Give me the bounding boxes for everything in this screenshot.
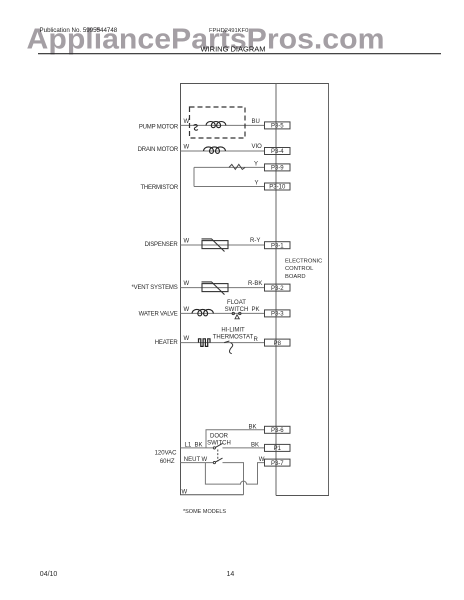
- wire thermistor bottom branch: [194, 186, 265, 188]
- electronic control board label: [285, 258, 322, 280]
- svg-text:WATER VALVE: WATER VALVE: [139, 311, 178, 317]
- wire water valve W: [181, 312, 265, 314]
- wire thermistor top branch: [194, 166, 265, 168]
- svg-text:P8: P8: [274, 341, 282, 347]
- svg-text:120VAC: 120VAC: [155, 451, 178, 457]
- svg-text:W: W: [184, 119, 190, 125]
- svg-text:ELECTRONIC: ELECTRONIC: [285, 258, 322, 264]
- svg-text:P3-9: P3-9: [271, 166, 284, 172]
- svg-text:14: 14: [227, 571, 235, 578]
- door switch pole 1: [213, 443, 222, 449]
- svg-text:Publication No. 5995544748: Publication No. 5995544748: [40, 27, 118, 34]
- svg-text:R: R: [254, 337, 259, 343]
- wire dispenser W: [181, 244, 265, 246]
- neutral bus bottom wire W: [180, 494, 244, 496]
- heater element: [199, 339, 211, 347]
- svg-text:W: W: [184, 239, 190, 245]
- drain motor winding coil: [204, 147, 226, 153]
- svg-text:W: W: [184, 281, 190, 287]
- svg-text:WIRING DIAGRAM: WIRING DIAGRAM: [201, 44, 266, 53]
- svg-text:DRAIN MOTOR: DRAIN MOTOR: [138, 147, 179, 153]
- svg-text:W: W: [184, 336, 190, 342]
- connector P3-1: [265, 242, 291, 250]
- svg-text:DOOR: DOOR: [210, 433, 229, 439]
- pump motor dashed enclosure: [190, 107, 246, 138]
- wire BK to P1: [223, 447, 265, 449]
- svg-text:FLOAT: FLOAT: [227, 300, 246, 306]
- wire drain motor W: [181, 150, 265, 152]
- svg-text:THERMISTOR: THERMISTOR: [140, 185, 178, 191]
- wire pump motor W: [181, 124, 265, 126]
- svg-text:Y: Y: [254, 162, 258, 168]
- node label NEUT W: [184, 457, 208, 463]
- top edge wire: [180, 83, 329, 85]
- label 120VAC 60HZ: [155, 451, 178, 465]
- svg-text:BK: BK: [251, 442, 259, 448]
- svg-text:R-BK: R-BK: [248, 281, 262, 287]
- float switch label: [225, 300, 249, 313]
- connector P8: [265, 339, 291, 347]
- wire neutral branch to P3-7 with crossover: [205, 463, 264, 485]
- header rule: [38, 53, 441, 55]
- door switch label: [207, 433, 231, 446]
- svg-text:SWITCH: SWITCH: [225, 307, 249, 313]
- neutral bus left edge: [180, 84, 182, 496]
- connector P3-6: [265, 426, 291, 434]
- connector P3-2: [265, 284, 291, 292]
- svg-text:HI-LIMIT: HI-LIMIT: [221, 328, 245, 334]
- svg-text:R-Y: R-Y: [250, 238, 260, 244]
- svg-text:THERMOSTAT: THERMOSTAT: [213, 335, 254, 341]
- svg-text:W: W: [202, 457, 208, 463]
- wire thermistor left vertical: [193, 167, 195, 186]
- svg-text:Y: Y: [255, 180, 259, 186]
- vent actuator: [202, 282, 229, 295]
- wire switched neutral down: [223, 463, 244, 495]
- svg-text:W: W: [184, 307, 190, 313]
- svg-text:BK: BK: [249, 424, 257, 430]
- svg-text:L1: L1: [185, 442, 192, 448]
- svg-text:*VENT SYSTEMS: *VENT SYSTEMS: [132, 285, 178, 291]
- thermistor resistor element: [229, 164, 245, 169]
- right edge of electronic control board: [328, 84, 330, 496]
- hi-limit thermostat label: [213, 328, 254, 341]
- hi-limit thermostat: [224, 341, 233, 354]
- float switch: [232, 312, 241, 319]
- connector P3-4: [265, 148, 291, 156]
- svg-text:P3-7: P3-7: [271, 461, 284, 467]
- svg-text:DISPENSER: DISPENSER: [145, 242, 179, 248]
- wire vent W: [181, 287, 265, 289]
- connector P3-10: [265, 183, 291, 191]
- electronic control board left edge: [275, 84, 277, 496]
- door switch pole 2: [213, 458, 222, 464]
- electronic control board bottom edge: [276, 495, 329, 497]
- connector P3-7: [265, 459, 291, 467]
- wire NEUT: [181, 462, 214, 464]
- connector P3-9: [265, 164, 291, 172]
- wire heater W: [181, 342, 265, 344]
- svg-text:BOARD: BOARD: [285, 274, 306, 280]
- svg-text:CONTROL: CONTROL: [285, 266, 314, 272]
- svg-text:*SOME MODELS: *SOME MODELS: [183, 509, 226, 515]
- water valve solenoid coil: [192, 309, 213, 315]
- wire L1: [181, 447, 214, 449]
- svg-text:W: W: [184, 145, 190, 151]
- svg-text:PK: PK: [252, 307, 260, 313]
- wire BK to P3-6: [206, 430, 265, 448]
- connector P1: [265, 444, 291, 452]
- svg-text:NEUT: NEUT: [184, 457, 201, 463]
- connector P3-5: [265, 122, 291, 130]
- connector P3-3: [265, 310, 291, 318]
- svg-text:P3-1: P3-1: [271, 243, 284, 249]
- pump motor thermal protector: [194, 125, 198, 131]
- svg-text:FPHD2491KF0: FPHD2491KF0: [209, 28, 248, 34]
- svg-text:W: W: [259, 457, 265, 463]
- svg-text:P3-2: P3-2: [271, 286, 284, 292]
- svg-text:BK: BK: [195, 442, 203, 448]
- svg-text:BU: BU: [252, 119, 260, 125]
- svg-text:VIO: VIO: [252, 144, 263, 150]
- svg-text:P3-6: P3-6: [271, 428, 284, 434]
- svg-text:P3-5: P3-5: [271, 124, 284, 130]
- svg-text:P3-10: P3-10: [269, 185, 286, 191]
- svg-text:P1: P1: [274, 446, 282, 452]
- svg-text:P3-3: P3-3: [271, 312, 284, 318]
- pump motor winding coil: [206, 122, 226, 128]
- dispenser actuator: [202, 239, 229, 252]
- svg-text:W: W: [182, 490, 188, 496]
- svg-text:60HZ: 60HZ: [160, 459, 175, 465]
- svg-text:PUMP MOTOR: PUMP MOTOR: [139, 124, 179, 130]
- svg-text:HEATER: HEATER: [155, 340, 179, 346]
- svg-text:P3-4: P3-4: [271, 149, 284, 155]
- door switch linkage: [217, 450, 219, 462]
- svg-text:04/10: 04/10: [40, 571, 58, 578]
